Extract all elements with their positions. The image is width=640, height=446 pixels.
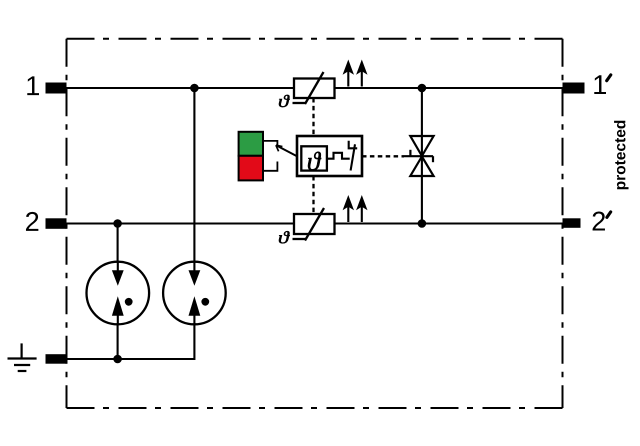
indicator pointer with arrowhead: [276, 145, 297, 156]
junction node on line2 at x=422: [418, 219, 427, 228]
indicator linkage bottom bracket: [263, 162, 277, 171]
wire line2 down to left spark gap: [117, 224, 119, 263]
junction node on line2 at x=117: [113, 219, 122, 228]
surge arrows at RV1: [343, 60, 368, 87]
monitoring device block U1: [297, 136, 362, 176]
status indicator red field: [239, 156, 263, 181]
bidirectional suppressor diode D1: [404, 136, 434, 176]
right spark gap G2: [163, 262, 226, 325]
wire line 1 (terminal 1 to 1'): [67, 87, 564, 89]
indicator linkage top bracket: [263, 141, 277, 147]
pulse waveform inside U1: [327, 153, 350, 159]
terminal 2' label: [593, 212, 605, 231]
device boundary (dash-dot border): [67, 39, 563, 408]
theta label inside U1: [308, 152, 321, 171]
terminal 1' label: [594, 75, 606, 94]
dashed link RV1 to U1: [312, 98, 314, 136]
junction node on line1 at x=422: [418, 84, 427, 93]
junction node on ground bus at x=117: [113, 355, 122, 364]
wire line 2 (terminal 2 to 2'): [67, 222, 564, 224]
status indicator green field: [239, 132, 263, 156]
terminal 2' pad: [563, 218, 581, 228]
theta label of RV1: [279, 95, 290, 107]
terminal 1 label: [27, 76, 39, 95]
theta label of RV2: [279, 231, 290, 243]
varistor RV2 (thermally monitored): [293, 208, 335, 241]
ground symbol: [8, 343, 37, 371]
wire right spark gap bottom to ground bus: [193, 324, 195, 361]
protected label (rotated): [614, 121, 628, 190]
terminal 2 pad: [46, 218, 67, 229]
thermal sensor box inside U1: [301, 146, 327, 170]
varistor RV1 (thermally monitored): [293, 72, 335, 104]
wire vertical through suppressor diode (line1 to line2): [421, 88, 423, 224]
junction node on line1 at x=194: [190, 84, 199, 93]
dashed link U1 to RV2: [312, 176, 314, 214]
wire vertical from line1 down to right spark gap: [193, 88, 195, 263]
disconnect switch inside U1: [351, 144, 355, 170]
wire ground bus: [67, 358, 195, 360]
wire left spark gap bottom to ground bus: [117, 324, 119, 360]
terminal 1' pad: [563, 83, 585, 94]
dashed link U1 to suppressor: [362, 155, 404, 157]
left spark gap G1: [87, 262, 150, 325]
terminal 1 pad: [46, 83, 67, 94]
terminal ground pad: [46, 354, 67, 364]
terminal 2 label: [26, 212, 38, 231]
switch hook inside U1: [349, 141, 358, 149]
surge arrows at RV2: [343, 195, 368, 222]
